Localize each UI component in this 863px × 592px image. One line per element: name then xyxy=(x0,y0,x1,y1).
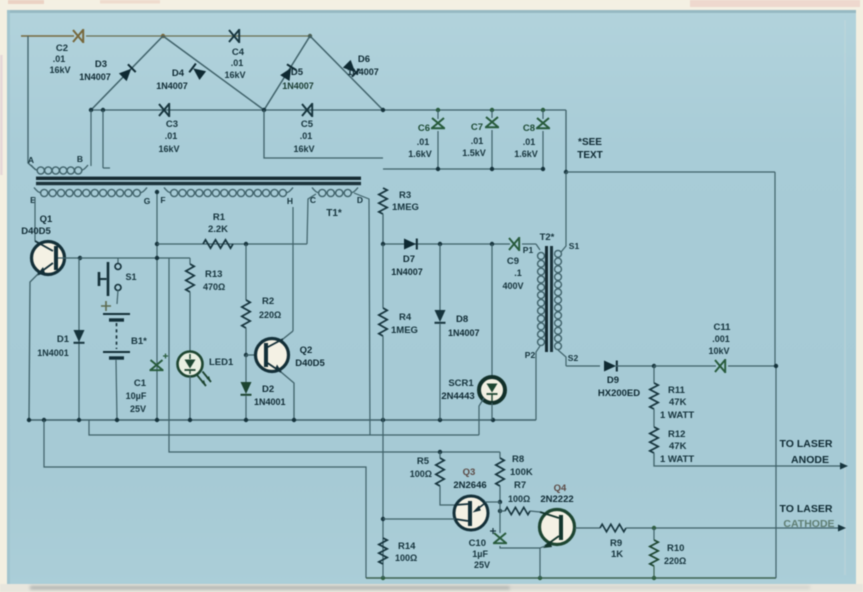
switch S1 xyxy=(117,258,119,263)
wire S1 drop to T2 xyxy=(561,172,566,252)
node junction rail xyxy=(381,418,385,422)
resistor R13 branch xyxy=(189,258,191,264)
diode D6 xyxy=(343,60,360,77)
svg-text:1N4007: 1N4007 xyxy=(391,267,423,277)
wire E drop to Q1 xyxy=(34,197,36,241)
capacitor C4 xyxy=(229,29,239,43)
wire R13 to LED1 xyxy=(189,292,191,352)
wire R2 branch xyxy=(245,244,247,300)
node junction xyxy=(42,418,46,422)
resistor R2 xyxy=(242,300,250,328)
wire HV run to right xyxy=(566,171,775,173)
resistor R7 xyxy=(505,507,530,514)
wire R4 to rail xyxy=(382,336,384,420)
diode D2 branch xyxy=(245,355,247,382)
node valley2 junction xyxy=(262,108,266,112)
node junction rail xyxy=(155,418,159,422)
node junction xyxy=(89,108,93,112)
svg-text:ANODE: ANODE xyxy=(791,454,829,466)
wire C6 bottom lead xyxy=(437,131,439,169)
node junction rail xyxy=(115,418,119,422)
capacitor C1 xyxy=(150,360,164,370)
transistor Q1 xyxy=(32,242,65,275)
resistor R11 branch xyxy=(653,366,655,383)
svg-text:R12: R12 xyxy=(668,429,685,440)
capacitor C7 xyxy=(485,117,499,127)
node junction xyxy=(438,242,442,246)
wire G-F drop / C1 branch xyxy=(156,192,158,420)
wire R11-R12 xyxy=(653,409,655,427)
node junction xyxy=(652,576,656,580)
node junction xyxy=(541,108,545,112)
svg-text:16kV: 16kV xyxy=(293,144,314,154)
svg-text:SCR1: SCR1 xyxy=(448,378,474,389)
transformer T2 core bars xyxy=(545,246,548,352)
wire Q1 emitter to rail xyxy=(29,274,38,420)
svg-text:C5: C5 xyxy=(301,119,314,130)
cathode arrowhead xyxy=(838,525,846,532)
svg-text:P2: P2 xyxy=(525,350,536,360)
svg-text:D9: D9 xyxy=(607,375,619,386)
LED LED1 xyxy=(178,352,203,377)
wire C7 top lead xyxy=(491,110,493,118)
capacitor C9 xyxy=(509,237,519,251)
resistor R13 xyxy=(186,264,194,292)
wire diagonal D6 branch xyxy=(310,36,383,110)
svg-text:1K: 1K xyxy=(611,549,623,560)
wire base bus xyxy=(80,257,190,259)
svg-text:TO LASER: TO LASER xyxy=(780,438,833,450)
svg-text:400V: 400V xyxy=(502,281,523,291)
svg-text:R3: R3 xyxy=(399,190,411,201)
resistor R4 branch xyxy=(382,244,384,308)
diode D4 xyxy=(189,64,206,80)
svg-text:C6: C6 xyxy=(418,123,430,134)
wire HV right drop xyxy=(774,172,776,366)
svg-text:D6: D6 xyxy=(358,54,370,65)
wire V+ rail to pulse section xyxy=(169,258,500,452)
node junction xyxy=(436,108,440,112)
svg-text:R1: R1 xyxy=(213,212,226,223)
transistor Q3 xyxy=(454,496,488,530)
wire C6-C8 bottom bus xyxy=(383,168,543,170)
wire C7 bottom lead xyxy=(491,130,493,169)
svg-text:Q3: Q3 xyxy=(463,467,476,478)
wire C terminal drop xyxy=(307,194,316,244)
wire HV output corner xyxy=(565,110,567,172)
wire B-terminal drop 2 xyxy=(102,110,104,168)
svg-text:H: H xyxy=(287,196,293,206)
diode D3 xyxy=(119,64,136,81)
resistor R1 zigzag xyxy=(203,240,233,248)
transistor Q4 xyxy=(540,510,575,545)
resistor R14 xyxy=(379,538,387,564)
svg-text:1N4007: 1N4007 xyxy=(79,72,111,82)
svg-text:C7: C7 xyxy=(471,122,483,133)
svg-text:R8: R8 xyxy=(512,454,524,465)
node junction xyxy=(498,500,502,504)
node junction xyxy=(490,108,494,112)
svg-text:.1: .1 xyxy=(514,268,522,278)
winding T2 primary xyxy=(538,252,545,259)
svg-text:2.2K: 2.2K xyxy=(208,224,228,235)
wire D7 line xyxy=(383,243,510,245)
wire C9 to P1 xyxy=(522,243,536,245)
svg-text:A: A xyxy=(28,155,34,165)
svg-text:.01: .01 xyxy=(417,137,430,147)
wire R5 lead xyxy=(439,452,441,458)
node junction rail xyxy=(244,418,248,422)
capacitor C8 xyxy=(536,118,550,128)
node junction rail xyxy=(27,418,31,422)
capacitor C10 xyxy=(493,533,507,543)
resistor R11 xyxy=(650,383,658,409)
svg-text:T2*: T2* xyxy=(540,232,555,243)
resistor R3 xyxy=(379,188,387,214)
wire Q3 B1 lead xyxy=(383,518,455,520)
node junction rail xyxy=(438,418,442,422)
svg-text:S2: S2 xyxy=(568,353,579,363)
svg-text:R14: R14 xyxy=(398,541,416,552)
wire Q1 base lead xyxy=(58,257,80,259)
node junction xyxy=(498,509,502,513)
wire Q2 emitter to rail xyxy=(281,372,294,420)
resistor R10 xyxy=(650,540,658,566)
node junction xyxy=(774,364,778,368)
svg-text:C11: C11 xyxy=(714,322,732,333)
capacitor C11 xyxy=(715,359,725,373)
svg-text:D1: D1 xyxy=(57,334,70,345)
svg-text:D8: D8 xyxy=(456,314,468,325)
svg-text:1N4007: 1N4007 xyxy=(282,81,314,91)
node junction xyxy=(381,576,385,580)
wire cathode line xyxy=(626,527,838,529)
svg-text:1N4007: 1N4007 xyxy=(448,328,480,338)
svg-text:R10: R10 xyxy=(667,543,684,554)
svg-text:10kV: 10kV xyxy=(708,346,729,356)
svg-text:C3: C3 xyxy=(166,119,178,130)
wire R10 to rail xyxy=(653,566,655,578)
wire C8 top lead xyxy=(542,110,544,119)
svg-text:47K: 47K xyxy=(669,397,687,408)
node junction xyxy=(436,167,440,171)
node junction rail xyxy=(77,418,81,422)
node junction R1 left xyxy=(155,242,159,246)
svg-text:B1*: B1* xyxy=(131,336,147,347)
wire S2 lead xyxy=(558,350,566,366)
svg-text:R11: R11 xyxy=(668,385,686,396)
thyristor SCR1 xyxy=(479,377,505,403)
wire top rail mid xyxy=(86,35,310,37)
svg-text:25V: 25V xyxy=(474,560,490,570)
wire R8 to node xyxy=(499,486,501,502)
wire SCR gate rail xyxy=(89,420,479,435)
svg-text:100K: 100K xyxy=(510,467,533,478)
node junction xyxy=(155,256,159,260)
wire H drop to Q2 collector xyxy=(292,207,294,331)
node junction xyxy=(652,526,656,530)
wire left rail from top xyxy=(28,36,36,170)
svg-text:D40D5: D40D5 xyxy=(21,226,51,237)
svg-text:F: F xyxy=(160,195,165,205)
svg-text:*SEE: *SEE xyxy=(578,137,602,148)
svg-text:TO LASER: TO LASER xyxy=(780,503,833,515)
wire anode line xyxy=(654,453,840,466)
svg-text:.01: .01 xyxy=(523,137,536,147)
svg-text:1N4007: 1N4007 xyxy=(347,67,379,77)
wire return rail outer xyxy=(44,420,366,578)
wire Q3 emitter lead xyxy=(485,501,500,503)
wire Q4 collector xyxy=(575,527,600,529)
node junction xyxy=(564,170,568,174)
node valley3 junction xyxy=(381,108,385,112)
svg-text:2N4443: 2N4443 xyxy=(441,391,474,402)
svg-text:G: G xyxy=(144,196,151,206)
node junction xyxy=(538,576,542,580)
resistor R5 xyxy=(436,458,444,486)
winding T1 E-G xyxy=(34,188,40,193)
wire R3 bottom lead xyxy=(382,214,384,244)
winding T1 F-H xyxy=(164,188,170,193)
wire right riser xyxy=(775,366,777,578)
node junction rail xyxy=(188,418,192,422)
node junction GF xyxy=(155,190,159,194)
svg-text:D40D5: D40D5 xyxy=(295,358,325,369)
svg-text:220Ω: 220Ω xyxy=(259,310,281,320)
svg-text:1N4001: 1N4001 xyxy=(254,397,286,407)
svg-text:D2: D2 xyxy=(262,384,274,395)
svg-text:R9: R9 xyxy=(610,538,622,549)
svg-text:HX200ED: HX200ED xyxy=(598,388,640,399)
wire emitter node column xyxy=(499,502,501,533)
wire LED1 to rail xyxy=(189,376,191,420)
resistor R12 xyxy=(650,427,658,453)
wire D2 to rail xyxy=(245,396,247,420)
winding T1 C-D xyxy=(312,188,318,193)
wire SCR anode branch xyxy=(491,244,493,377)
svg-text:1.6kV: 1.6kV xyxy=(408,149,432,159)
wire Q2 base lead xyxy=(246,354,257,356)
svg-text:1.5kV: 1.5kV xyxy=(462,148,486,158)
svg-text:R13: R13 xyxy=(205,269,222,280)
diode D5 xyxy=(280,64,296,81)
node junction xyxy=(541,167,545,171)
svg-text:Q1: Q1 xyxy=(40,214,53,225)
svg-text:1MEG: 1MEG xyxy=(392,202,419,213)
svg-text:.01: .01 xyxy=(53,54,66,64)
wire C6 top lead xyxy=(437,110,439,119)
svg-text:1.6kV: 1.6kV xyxy=(514,149,538,159)
svg-text:CATHODE: CATHODE xyxy=(783,518,834,530)
node junction xyxy=(490,167,494,171)
node peak1 junction xyxy=(161,34,165,38)
svg-text:S1: S1 xyxy=(569,241,580,251)
svg-text:16kV: 16kV xyxy=(49,65,70,75)
svg-text:2N2222: 2N2222 xyxy=(540,494,573,505)
svg-text:R7: R7 xyxy=(514,480,526,491)
diode D2 xyxy=(241,382,252,395)
svg-text:D3: D3 xyxy=(95,59,107,70)
wire D9 to node xyxy=(616,365,654,367)
node junction xyxy=(652,364,656,368)
node junction rail xyxy=(491,418,495,422)
svg-text:C9: C9 xyxy=(507,256,519,267)
wire main ground rail xyxy=(29,419,536,421)
svg-text:C2: C2 xyxy=(56,43,68,54)
svg-text:.001: .001 xyxy=(712,334,730,344)
wire bottom rail xyxy=(366,577,776,579)
diode D9 xyxy=(604,361,617,372)
svg-text:2N2646: 2N2646 xyxy=(453,480,486,491)
svg-text:D4: D4 xyxy=(172,68,185,79)
wire C8 bottom lead xyxy=(542,131,544,169)
svg-text:10µF: 10µF xyxy=(126,391,147,401)
node junction rail xyxy=(292,418,296,422)
capacitor C3 xyxy=(159,103,169,117)
wire D terminal drop xyxy=(354,193,370,435)
svg-text:S1: S1 xyxy=(125,272,136,282)
svg-text:C8: C8 xyxy=(523,123,535,134)
node peak2 junction xyxy=(308,34,312,38)
wire D1 branch xyxy=(78,258,80,420)
wire diagonal D3 branch xyxy=(91,36,163,110)
wire top rail left (input) xyxy=(21,35,74,37)
svg-text:C10: C10 xyxy=(469,538,486,549)
svg-text:16kV: 16kV xyxy=(224,70,245,80)
wire B-terminal drop 1 xyxy=(90,110,92,166)
svg-text:C1: C1 xyxy=(134,378,147,389)
svg-text:100Ω: 100Ω xyxy=(410,469,432,479)
wire P2 drop xyxy=(536,346,540,420)
wire R7 to Q4 base xyxy=(530,511,540,512)
battery B1 xyxy=(117,290,118,304)
svg-text:C4: C4 xyxy=(232,47,245,58)
diode D8 xyxy=(435,310,446,323)
resistor R9 xyxy=(600,524,626,532)
svg-text:TEXT: TEXT xyxy=(577,150,603,161)
svg-text:D5: D5 xyxy=(291,67,304,78)
wire multiplier lower rail xyxy=(91,109,566,111)
resistor R8 xyxy=(496,458,504,486)
resistor R4 xyxy=(379,308,387,336)
node junction xyxy=(381,517,385,521)
svg-text:25V: 25V xyxy=(130,404,146,414)
node junction xyxy=(381,242,385,246)
winding T1 A-B xyxy=(31,165,37,170)
diode D8 branch xyxy=(439,244,441,310)
wire R4-R14 column xyxy=(382,420,384,578)
wire SCR gate xyxy=(479,398,484,435)
svg-text:470Ω: 470Ω xyxy=(203,282,225,292)
wire C11 to riser xyxy=(728,365,776,367)
wire S2 to D9 xyxy=(566,365,600,367)
wire diagonal D5 branch xyxy=(264,36,310,110)
svg-text:Q4: Q4 xyxy=(554,483,567,494)
wire SCR cathode xyxy=(491,403,493,420)
svg-text:Q2: Q2 xyxy=(300,345,313,356)
svg-text:LED1: LED1 xyxy=(209,357,234,368)
capacitor C6 xyxy=(431,118,445,128)
svg-text:100Ω: 100Ω xyxy=(508,494,530,504)
transformer T1 core bar bottom xyxy=(36,182,361,185)
svg-text:1 WATT: 1 WATT xyxy=(660,454,694,465)
diode D1 xyxy=(74,330,85,343)
svg-text:P1: P1 xyxy=(523,245,534,255)
svg-text:100Ω: 100Ω xyxy=(395,553,417,563)
svg-text:1 WATT: 1 WATT xyxy=(660,410,694,421)
node junction Q2 base xyxy=(244,353,248,357)
wire R2 to base node xyxy=(245,328,247,355)
capacitor C5 xyxy=(302,103,312,117)
svg-text:16kV: 16kV xyxy=(158,144,179,154)
winding T2 secondary xyxy=(555,250,562,257)
transistor Q2 xyxy=(256,339,289,372)
wire to C11 xyxy=(654,365,716,367)
wire diagonal D4 branch xyxy=(163,36,264,110)
svg-text:1N4001: 1N4001 xyxy=(37,348,69,358)
svg-text:1µF: 1µF xyxy=(472,549,488,559)
svg-text:47K: 47K xyxy=(669,441,687,452)
svg-text:B: B xyxy=(77,154,83,164)
capacitor C2 xyxy=(73,29,83,43)
svg-text:R4: R4 xyxy=(399,312,412,323)
svg-text:R2: R2 xyxy=(262,296,274,307)
anode arrowhead xyxy=(840,463,848,470)
svg-text:R5: R5 xyxy=(417,456,430,467)
node junction xyxy=(78,256,82,260)
node junction R2 top xyxy=(244,242,248,246)
diode D7 xyxy=(404,239,417,250)
resistor R1 xyxy=(157,243,307,245)
svg-text:D7: D7 xyxy=(403,254,415,265)
resistor R10 branch xyxy=(653,528,655,540)
wire R8 lead xyxy=(499,452,501,458)
wire R7 left xyxy=(500,510,505,512)
svg-text:1MEG: 1MEG xyxy=(391,325,418,336)
svg-text:.01: .01 xyxy=(471,136,484,146)
svg-text:T1*: T1* xyxy=(326,208,342,219)
node junction R5 top xyxy=(438,450,442,454)
svg-text:.01: .01 xyxy=(300,131,313,141)
svg-text:.01: .01 xyxy=(165,131,178,141)
svg-text:220Ω: 220Ω xyxy=(664,556,686,566)
wire D8 to rail xyxy=(439,324,441,420)
wire Q4 emitter drop xyxy=(540,546,545,578)
node junction xyxy=(101,108,105,112)
transformer T1 core bar top xyxy=(36,177,361,180)
node junction xyxy=(490,242,494,246)
wire R5 to Q3 xyxy=(440,486,455,505)
wire valley2 to R3 route xyxy=(264,110,383,158)
svg-text:.01: .01 xyxy=(231,58,244,68)
wire C10 bottom xyxy=(500,546,540,548)
svg-text:1N4007: 1N4007 xyxy=(156,81,188,91)
